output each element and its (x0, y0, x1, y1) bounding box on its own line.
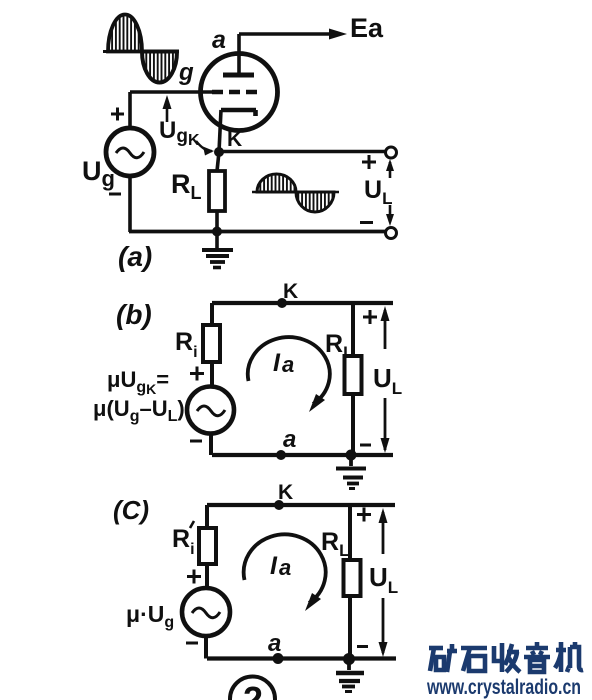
ground (c) (347, 659, 351, 670)
minus sign right (c) (357, 645, 368, 648)
svg-text:Ea: Ea (350, 13, 384, 43)
wire bottom (c) (207, 656, 396, 660)
plus sign (c) (187, 570, 201, 584)
wire RL to bottom node (215, 211, 219, 232)
figure number circle 2 (230, 677, 275, 700)
node a (b) (276, 450, 286, 460)
wire top (b) (212, 301, 393, 305)
arrow UL down (b) (384, 398, 387, 450)
loop arrow Ia (b) (248, 337, 330, 404)
wire anode to Ea (239, 32, 336, 36)
tube anode plate (223, 73, 254, 78)
minus sign (b) (190, 440, 202, 443)
tube V1 envelope (201, 54, 278, 131)
source (b) (187, 387, 234, 434)
source (c) (182, 588, 230, 636)
wire cathode lead (219, 110, 221, 152)
ground (a) (215, 232, 219, 249)
output waveform baseline (252, 191, 339, 194)
watermark 矿石收音机 (429, 642, 583, 672)
wire right rail (b) (351, 303, 355, 455)
arrow UL up (c) (382, 512, 385, 554)
svg-text:(C): (C) (113, 495, 149, 525)
arrow UL up (389, 162, 392, 178)
output waveform positive half (257, 174, 296, 192)
terminal bottom (386, 228, 397, 239)
node K (c) (274, 500, 284, 510)
wire right rail (c) (348, 505, 352, 659)
arrow UL down (c) (382, 598, 385, 653)
wire left rail (c) (205, 505, 209, 589)
svg-text:www.crystalradio.cn: www.crystalradio.cn (426, 676, 581, 699)
ground (b) (349, 455, 353, 466)
tube cathode (221, 110, 256, 116)
plus sign UL (c) (357, 508, 371, 522)
loop arrow Ia (c) (244, 534, 326, 603)
minus sign right (b) (360, 444, 371, 447)
svg-text:a: a (282, 352, 294, 377)
arrow UL up (b) (384, 310, 387, 349)
char yin (524, 642, 550, 672)
input waveform negative half-cycle (142, 52, 177, 83)
resistor RL (b) (345, 356, 362, 394)
node bottom (a) (212, 227, 222, 237)
minus sign (c) (186, 642, 198, 645)
input waveform baseline (103, 50, 179, 53)
wire source to bottom (b) (209, 434, 213, 456)
wire grid lead (130, 90, 212, 94)
resistor Ri (b) (203, 325, 220, 362)
node a (c) (273, 653, 284, 664)
plus sign (b) (190, 367, 204, 381)
node corner (b) (346, 450, 357, 461)
wire bottom (b) (212, 453, 393, 457)
tube grid (dashed) (212, 90, 262, 95)
svg-text:a: a (283, 426, 296, 453)
char ji (555, 642, 583, 672)
source Ug (106, 128, 154, 176)
char shou (494, 643, 520, 672)
arrowhead Ea (329, 29, 347, 40)
plus sign UL (b) (363, 310, 377, 324)
svg-text:(b): (b) (116, 299, 152, 330)
svg-text:a: a (212, 26, 226, 54)
resistor Ri' (c) (199, 528, 216, 564)
svg-text:2: 2 (243, 679, 263, 700)
output waveform negative half (296, 192, 334, 212)
wire left rail bottom (128, 176, 132, 232)
wire top (c) (207, 503, 395, 507)
input waveform positive half-cycle (108, 15, 142, 52)
plus sign (UL out) (362, 155, 376, 169)
svg-text:a: a (268, 630, 281, 657)
char shi (461, 648, 487, 671)
svg-text:(a): (a) (118, 241, 152, 272)
plus sign (Ug) (111, 108, 124, 121)
wire bottom (129, 230, 387, 234)
wire node K to RL (217, 152, 219, 171)
resistor RL (c) (344, 560, 361, 596)
node corner (c) (343, 653, 355, 665)
arrow UL down (389, 205, 392, 222)
char kuang (429, 644, 457, 672)
svg-text:I: I (273, 349, 281, 377)
svg-text:K: K (283, 280, 298, 303)
minus sign (UL out) (360, 221, 373, 224)
svg-text:K: K (278, 481, 293, 504)
svg-text:a: a (279, 555, 291, 580)
minus sign (Ug) (109, 193, 121, 196)
resistor RL (a) (209, 171, 225, 211)
svg-text:K: K (227, 128, 242, 151)
arrow UgK up (166, 101, 169, 122)
svg-text:g: g (178, 59, 194, 86)
terminal top (386, 147, 397, 158)
node K (b) (277, 298, 287, 308)
arrow UgK to node K (196, 141, 212, 151)
wire left rail top (128, 92, 132, 128)
wire source to bottom (c) (204, 636, 208, 659)
wire left rail (b) (210, 303, 214, 387)
wire output top (219, 150, 386, 154)
node K (214, 147, 224, 157)
wire anode lead (237, 34, 241, 75)
svg-text:I: I (270, 552, 278, 580)
